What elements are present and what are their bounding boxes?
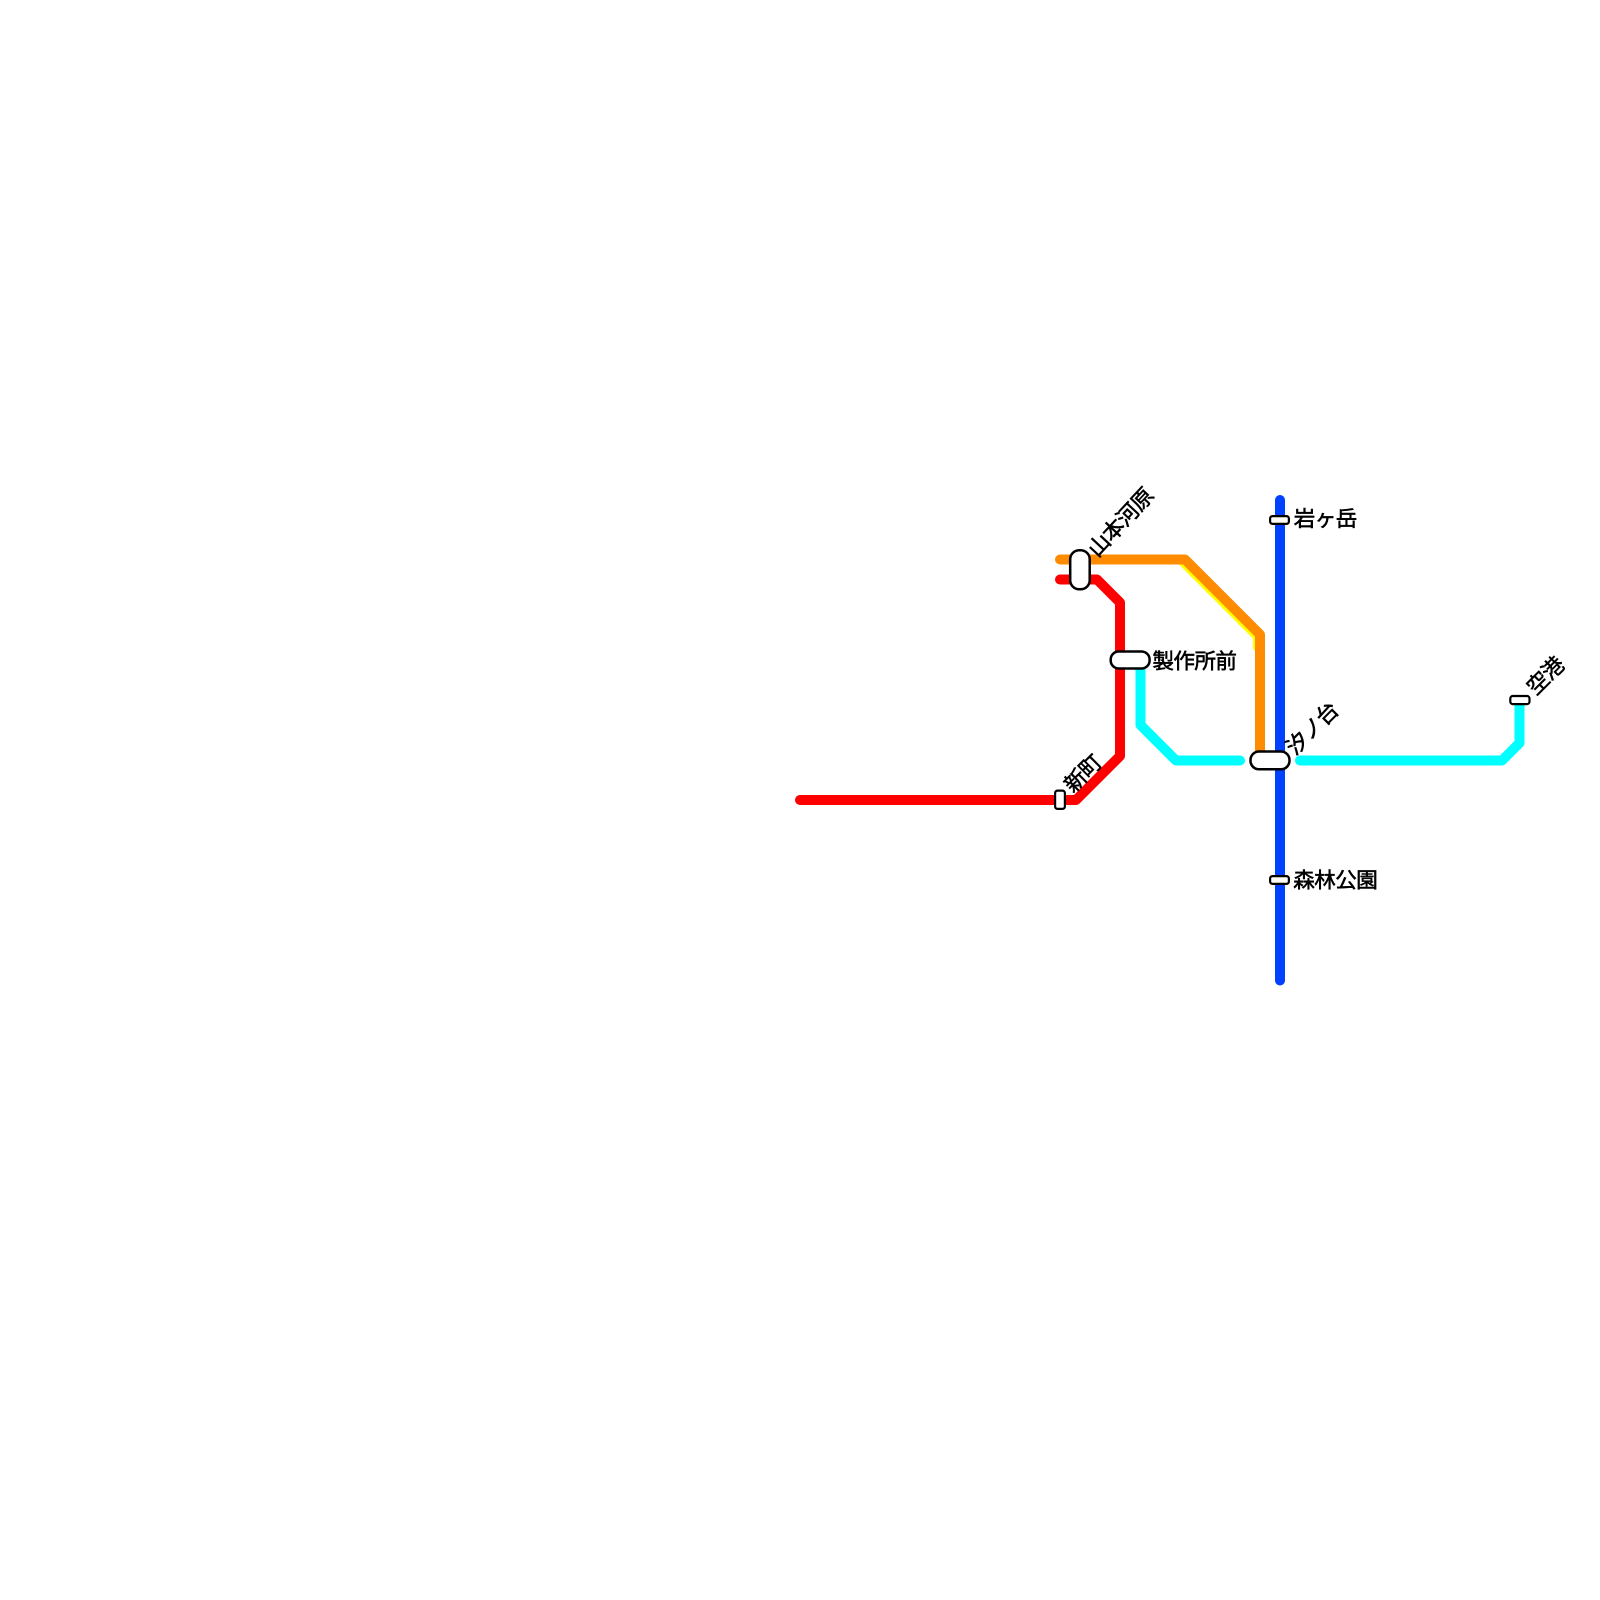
red line west terminus-新町-山本河原 bbox=[800, 580, 1120, 801]
station label 山本河原 (rotated 45) bbox=[1086, 485, 1156, 558]
station label 空港 (rotated 45) bbox=[1524, 653, 1567, 696]
station label 岩ヶ岳 bbox=[1294, 508, 1356, 528]
station marker 新町 (small, vertical) bbox=[1055, 791, 1065, 809]
station marker 空港 (small) bbox=[1510, 696, 1529, 704]
station marker 製作所前 (interchange, horizontal stadium) bbox=[1111, 652, 1150, 669]
station marker 岩ヶ岳 (small) bbox=[1270, 516, 1289, 524]
cyan line 製作所前-汐ノ台 bbox=[1141, 662, 1241, 761]
station marker 森林公園 (small) bbox=[1270, 876, 1289, 884]
blue line 岩ヶ岳-森林公園 vertical bbox=[1275, 500, 1285, 981]
station label 新町 (rotated 45) bbox=[1061, 751, 1104, 794]
station marker 山本河原 (interchange, vertical stadium) bbox=[1070, 550, 1090, 589]
station marker 汐ノ台 (interchange, horizontal stadium) bbox=[1251, 752, 1290, 770]
cyan line 汐ノ台-空港 bbox=[1300, 704, 1520, 761]
station label 汐ノ台 (rotated 45) bbox=[1283, 699, 1341, 757]
yellow line segment (peeking under orange diagonal) bbox=[1183, 562, 1258, 648]
station label 森林公園 bbox=[1294, 869, 1376, 889]
orange line 山本河原-汐ノ台 bbox=[1060, 560, 1260, 754]
station label 製作所前 bbox=[1153, 650, 1236, 670]
